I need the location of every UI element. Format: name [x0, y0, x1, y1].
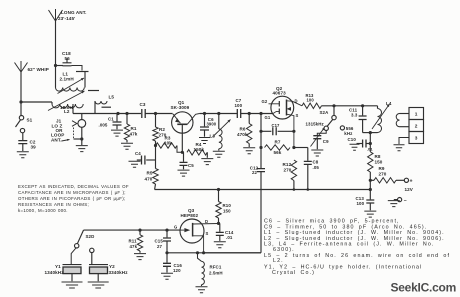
wire Y2 lead	[91, 253, 93, 265]
capacitor C16	[163, 253, 182, 273]
capacitor C6	[200, 114, 217, 137]
resistor R2	[153, 114, 167, 142]
ground C9	[311, 150, 323, 156]
node S2A tap	[332, 104, 335, 107]
wire J1 dash join	[74, 138, 82, 140]
wire main C	[200, 113, 238, 115]
node R7 right	[292, 146, 295, 149]
Q2 substrate arrow	[287, 107, 292, 111]
terminal +12V	[404, 178, 414, 192]
wire S1 to C2	[22, 133, 24, 140]
capacitor C15	[155, 230, 172, 253]
node whip junction	[19, 100, 22, 103]
svg-text:1315kHz: 1315kHz	[306, 121, 325, 126]
node R3 junction	[154, 144, 157, 147]
Q2 gate leads	[269, 104, 280, 114]
note text block	[18, 184, 129, 213]
node C10 tap	[369, 142, 372, 145]
ground L3	[213, 151, 225, 157]
resistor R1	[124, 114, 138, 143]
svg-text:1: 1	[415, 112, 418, 118]
node Q1 base node	[181, 151, 184, 154]
svg-text:.05: .05	[313, 165, 320, 170]
wire Y2 down	[97, 274, 99, 281]
svg-text:.005: .005	[99, 123, 108, 128]
Q2 drain lead	[287, 101, 303, 106]
connector J2 pins	[409, 108, 424, 144]
ground C13	[364, 211, 376, 217]
node C6 tap	[203, 112, 206, 115]
svg-text:RFC1: RFC1	[210, 265, 222, 270]
jack J1	[72, 120, 86, 128]
wire whip mast	[20, 72, 22, 116]
node L3 tap	[217, 112, 220, 115]
Q3 drain lead	[193, 223, 219, 226]
wire R2 to C4 node	[155, 141, 157, 160]
svg-text:CAPACITANCE ARE IN MICROFARADS: CAPACITANCE ARE IN MICROFARADS ( μF );	[18, 190, 126, 195]
svg-text:S: S	[296, 113, 299, 118]
svg-text:OTHERS ARE IN PICOFARADS ( pF: OTHERS ARE IN PICOFARADS ( pF OR μμF);	[18, 196, 126, 201]
svg-text:R2: R2	[159, 127, 165, 132]
inductor L4	[378, 101, 392, 133]
svg-text:L2: L2	[64, 109, 70, 114]
svg-text:100: 100	[235, 103, 243, 108]
svg-text:C5: C5	[188, 163, 194, 168]
node C15 tap	[165, 229, 168, 232]
node R1 tap	[125, 112, 128, 115]
switch S1	[16, 116, 33, 133]
resistor R13	[302, 93, 322, 109]
ground R4	[201, 159, 213, 165]
node Q3 drain junction	[217, 222, 220, 225]
slug bar L1	[76, 71, 89, 73]
wire ground bus	[155, 189, 371, 191]
svg-text:R12: R12	[283, 162, 292, 167]
wire J1 dashed	[73, 128, 75, 139]
Q3 gate arrow	[180, 228, 190, 232]
Q1 emitter lead	[173, 114, 181, 123]
svg-text:C1: C1	[108, 117, 114, 122]
transistor Q3	[180, 208, 204, 243]
node bus right end	[369, 188, 372, 191]
svg-text:270: 270	[379, 171, 387, 176]
node C8 bus	[307, 188, 310, 191]
resistor R4	[187, 142, 207, 155]
ground C5	[178, 170, 190, 176]
svg-text:R9: R9	[379, 166, 385, 171]
Q1 base bar	[177, 123, 187, 125]
inductor L4 secondary	[396, 114, 399, 127]
svg-text:56k: 56k	[274, 150, 282, 155]
Q3 source lead	[193, 236, 204, 253]
wire C11 down	[362, 120, 364, 133]
resistor R5	[145, 160, 159, 190]
transistor Q1	[171, 100, 194, 133]
node L4 bottom	[369, 131, 372, 134]
svg-text:G1: G1	[265, 115, 271, 120]
svg-text:ANT.: ANT.	[51, 138, 62, 143]
node R10 bus	[217, 188, 220, 191]
wire main D	[241, 113, 273, 115]
svg-text:D: D	[205, 219, 208, 224]
svg-text:3: 3	[415, 136, 418, 142]
svg-text:R5: R5	[147, 171, 153, 176]
node C17 right	[292, 130, 295, 133]
wire Y1 lead	[71, 248, 76, 264]
capacitor C11	[349, 106, 367, 120]
capacitor C9 trimmer	[313, 136, 329, 150]
resistor R10	[216, 190, 232, 224]
ground R1	[121, 143, 133, 149]
svg-text:G2: G2	[262, 99, 268, 104]
capacitor C8	[294, 148, 319, 190]
node R7 left	[259, 146, 262, 149]
capacitor C5	[180, 152, 195, 169]
antenna whip	[15, 61, 49, 72]
svg-text:R6: R6	[240, 127, 246, 132]
svg-text:C8: C8	[313, 160, 319, 165]
wire R8 node down	[369, 180, 371, 189]
label Q3 pins	[174, 219, 209, 236]
wire secondary top	[400, 113, 410, 115]
capacitor C10	[348, 137, 374, 152]
node C17 left	[259, 130, 262, 133]
transistor Q2	[271, 86, 294, 119]
capacitor C4	[135, 151, 156, 164]
svg-text:HEP802: HEP802	[181, 213, 199, 218]
test point 556kHz	[340, 126, 354, 136]
svg-text:62" WHIP: 62" WHIP	[28, 67, 49, 72]
svg-text:470: 470	[145, 177, 153, 182]
svg-text:12V: 12V	[405, 187, 414, 192]
wire R3 to base	[177, 146, 182, 153]
wire L4 bottom	[363, 132, 378, 134]
wire L1 right	[84, 72, 86, 88]
svg-text:39: 39	[31, 145, 37, 150]
svg-text:C10: C10	[348, 137, 357, 142]
node antenna junction	[54, 64, 57, 67]
svg-text:3.3: 3.3	[351, 112, 358, 117]
wire osc rail lower	[204, 172, 261, 253]
capacitor C2	[18, 140, 36, 150]
resistor R8	[368, 152, 383, 181]
svg-text:L5: L5	[109, 95, 115, 100]
ground C6	[199, 138, 210, 144]
svg-text:23'-145': 23'-145'	[58, 16, 75, 21]
inductor L1	[56, 72, 85, 92]
node RFC1 tap	[196, 251, 199, 254]
svg-text:SK-3009: SK-3009	[171, 105, 190, 110]
svg-text:40673: 40673	[273, 90, 287, 95]
svg-text:R1: R1	[131, 126, 137, 131]
svg-text:2: 2	[415, 124, 418, 130]
resistor R11	[129, 230, 143, 253]
resistor R7	[265, 139, 291, 154]
wire J1 stub up	[81, 114, 83, 120]
svg-text:S2A: S2A	[320, 110, 330, 115]
switch S2D	[75, 230, 95, 252]
wire main A	[73, 113, 141, 115]
node R6 tap	[248, 112, 251, 115]
svg-text:+: +	[410, 179, 413, 185]
wire Q1 base down	[181, 124, 183, 152]
wire osc rail	[260, 114, 262, 169]
wire C2 to ground	[22, 144, 24, 151]
svg-text:C17: C17	[272, 123, 281, 128]
svg-text:47k: 47k	[130, 244, 138, 249]
crystal Y1	[45, 264, 82, 275]
svg-text:470k: 470k	[237, 132, 248, 137]
svg-text:L5 – 2 turns of No. 26 enam. w: L5 – 2 turns of No. 26 enam. wire on col…	[264, 253, 450, 259]
resistor R9	[370, 166, 404, 183]
node J1	[80, 137, 83, 140]
svg-text:100: 100	[307, 98, 315, 103]
svg-text:1340kHz: 1340kHz	[45, 270, 65, 275]
svg-text:Y1: Y1	[55, 264, 61, 269]
ground Y2	[88, 282, 109, 288]
capacitor C18	[62, 51, 72, 66]
svg-text:.01: .01	[367, 147, 374, 152]
svg-text:EXCEPT AS INDICATED, DECIMAL V: EXCEPT AS INDICATED, DECIMAL VALUES OF	[18, 184, 129, 189]
svg-text:10k: 10k	[164, 140, 172, 145]
svg-text:S: S	[206, 231, 209, 236]
svg-text:120: 120	[173, 268, 181, 273]
svg-text:3340kHz: 3340kHz	[109, 270, 129, 275]
Q2 gate bars	[278, 101, 280, 114]
wire secondary bottom	[400, 126, 410, 128]
ground pin3	[394, 145, 405, 151]
svg-text:3900: 3900	[207, 121, 217, 126]
ground RFC1	[196, 287, 208, 293]
svg-text:Y2: Y2	[109, 264, 115, 269]
node source line left	[165, 251, 168, 254]
svg-text:–: –	[404, 198, 407, 204]
svg-text:C3: C3	[140, 102, 146, 107]
resistor R3	[156, 136, 178, 149]
wire R4 right down	[206, 152, 208, 158]
svg-text:150: 150	[375, 160, 383, 165]
svg-text:22: 22	[252, 170, 258, 175]
svg-text:Crystal Co.): Crystal Co.)	[272, 270, 315, 276]
svg-text:270: 270	[284, 168, 292, 173]
wire osc top	[322, 105, 378, 107]
wire tank top left	[56, 65, 64, 67]
arrow L4 tuning	[372, 104, 390, 129]
capacitor C13	[356, 190, 375, 211]
crystal Y2	[89, 264, 128, 275]
wire pin3 ground	[399, 138, 409, 145]
svg-text:L3: L3	[210, 134, 216, 139]
svg-text:56: 56	[65, 56, 71, 61]
ground J1	[76, 146, 88, 152]
wire gate line	[84, 229, 181, 231]
arrow L1 tuning	[58, 78, 85, 94]
node R11 tap	[138, 229, 141, 232]
svg-text:150: 150	[223, 208, 231, 213]
node R9 junction	[369, 179, 372, 182]
label 1315kHz	[306, 121, 325, 126]
Q3 channel bar	[192, 223, 194, 237]
terminal -	[394, 198, 407, 204]
wire Y1 down	[71, 274, 73, 281]
Q1 collector lead	[187, 114, 199, 125]
node Q3 source node	[202, 251, 205, 254]
capacitor C14	[216, 223, 234, 241]
wire R8 rail upper	[369, 133, 371, 152]
svg-text:D: D	[295, 99, 298, 104]
node C1 tap	[116, 112, 119, 115]
svg-text:2.1mH: 2.1mH	[60, 76, 75, 81]
capacitor C7	[235, 98, 243, 118]
svg-text:R10: R10	[223, 203, 232, 208]
svg-text:C9: C9	[323, 139, 329, 144]
inductor RFC1	[198, 253, 223, 286]
inductor L5	[95, 95, 114, 105]
wire whip to L2	[21, 102, 52, 104]
svg-text:S1: S1	[27, 118, 33, 123]
svg-text:k=1000, M=1000 000.: k=1000, M=1000 000.	[18, 208, 68, 213]
svg-text:kHz: kHz	[344, 131, 353, 136]
svg-text:150k: 150k	[194, 147, 205, 152]
Q2 source lead	[287, 114, 294, 147]
svg-text:RESISTANCES ARE IN OHMS;: RESISTANCES ARE IN OHMS;	[18, 202, 89, 207]
component list text	[264, 219, 450, 277]
ground C2	[17, 152, 29, 158]
svg-text:R7: R7	[275, 139, 281, 144]
node osc rail top	[259, 112, 262, 115]
Q2 channel bar	[286, 100, 288, 116]
capacitor C12	[250, 165, 265, 175]
svg-text:G: G	[174, 224, 177, 229]
wire S2A to C9	[317, 131, 326, 136]
arrow J1 label	[62, 139, 70, 141]
resistor R12	[283, 160, 297, 190]
wire L2 tap down	[72, 104, 74, 114]
wire main B	[145, 113, 172, 115]
switch S2A	[320, 106, 337, 131]
node R2 tap	[154, 112, 157, 115]
ground C4	[129, 161, 141, 167]
node R12 bus	[293, 188, 296, 191]
svg-text:47k: 47k	[130, 132, 138, 137]
label J1	[51, 119, 64, 143]
wire L5 down	[94, 101, 96, 114]
ground C16	[161, 273, 173, 279]
svg-text:R8: R8	[375, 154, 381, 159]
ground Y1	[62, 282, 83, 288]
node C11 tap	[361, 104, 364, 107]
ground R11	[134, 254, 146, 260]
watermark SeekIC.com	[391, 281, 457, 295]
svg-text:.01: .01	[226, 235, 233, 240]
svg-text:2.5mH: 2.5mH	[209, 270, 223, 275]
svg-text:27: 27	[157, 244, 163, 249]
arrow L3 tuning	[213, 120, 231, 138]
inductor L3	[210, 114, 223, 151]
svg-text:100: 100	[357, 201, 365, 206]
ground C10	[350, 144, 360, 150]
ground C1	[111, 130, 123, 136]
arrow C9 trimmer	[311, 128, 325, 147]
ground neg terminal	[388, 201, 400, 207]
arrow L2 tuning	[48, 91, 85, 111]
slug bar L2	[88, 90, 99, 92]
antenna long-wire	[49, 9, 87, 21]
svg-text:R11: R11	[129, 238, 138, 243]
wire long-ant mast	[55, 21, 57, 88]
svg-text:6300).: 6300).	[273, 247, 295, 253]
wire source line	[167, 252, 261, 254]
wire tank top right	[72, 66, 83, 71]
ground C14	[214, 242, 226, 248]
svg-text:C15: C15	[155, 238, 164, 243]
inductor L2	[52, 104, 83, 114]
slug bar L5	[102, 106, 112, 108]
capacitor C1	[99, 114, 122, 130]
ground R6	[243, 148, 255, 154]
resistor R6	[237, 114, 252, 148]
svg-text:S2D: S2D	[86, 234, 95, 239]
svg-text:SeekIC.com: SeekIC.com	[391, 281, 457, 295]
svg-text:C4: C4	[135, 151, 141, 156]
svg-text:LONG ANT.: LONG ANT.	[61, 10, 86, 15]
wire J1 stub down	[81, 127, 83, 145]
capacitor C17	[261, 123, 294, 135]
label Q2 pins	[262, 99, 299, 120]
svg-text:L2.: L2.	[273, 258, 284, 264]
capacitor C3	[140, 102, 146, 118]
